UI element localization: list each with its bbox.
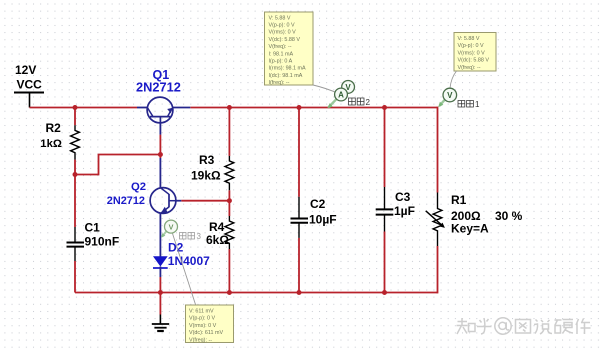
wire R3 top lead [228,108,230,156]
svg-text:Key=A: Key=A [451,222,489,236]
svg-text:R3: R3 [199,153,215,167]
transistor Q1 [137,97,190,135]
wire Q2 base to R3R4 node [181,200,229,202]
leader line right box to probe1 [450,71,457,88]
wire top rail right segment [190,107,437,109]
svg-text:C3: C3 [395,190,411,204]
wire D2 bottom to rail [159,277,161,293]
power source VCC 12V [14,63,44,108]
probe 2 label [349,98,371,107]
svg-text:1N4007: 1N4007 [168,254,210,268]
probe 2 (A+V) on top rail [326,81,355,111]
wire R4 bottom lead [228,249,230,293]
leader line probe3 to bottom box [173,234,196,305]
wire C2 top lead [298,108,300,197]
junction C3 top rail [382,105,387,110]
junction C2 bottom rail [297,290,302,295]
svg-text:19kΩ: 19kΩ [191,169,221,183]
svg-text:VCC: VCC [17,78,43,92]
svg-text:A: A [338,90,344,99]
svg-text:V(freq): --: V(freq): -- [269,44,292,50]
svg-text:I: 98.1 mA: I: 98.1 mA [269,51,294,57]
wire Q1 base down [159,135,161,158]
junction Q1 base feedback node [158,152,163,157]
svg-text:V(p-p): 0 V: V(p-p): 0 V [458,43,484,49]
svg-text:V(dc): 5.88 V: V(dc): 5.88 V [458,58,490,64]
shuo [534,320,552,335]
svg-text:2N2712: 2N2712 [107,195,145,207]
svg-text:6kΩ: 6kΩ [206,233,229,247]
wire C3 bottom lead [384,232,386,293]
wire node to C1 [74,175,76,228]
svg-text:1µF: 1µF [394,204,415,218]
wire feedback Z [75,155,160,175]
svg-text:R1: R1 [451,193,467,207]
capacitor C3 [376,187,394,232]
probe 1 (V) at right corner [436,88,456,109]
probe callout box bottom (V readings) [186,305,234,343]
junction R3 top rail [227,105,232,110]
probe callout box left (V/I readings) [265,12,314,86]
svg-text:C2: C2 [310,197,326,211]
svg-text:C1: C1 [85,220,101,234]
wire top rail left segment [30,107,138,109]
resistor R3 [225,156,234,190]
junction C2 top rail [297,105,302,110]
svg-text:I(p-p): 0 A: I(p-p): 0 A [269,59,293,65]
junction R4 bottom rail [227,290,232,295]
svg-text:2N2712: 2N2712 [136,80,181,95]
svg-text:12V: 12V [15,63,36,77]
resistor R2 [71,125,80,159]
svg-text:V(rms): 0 V: V(rms): 0 V [189,323,217,329]
wire C2 bottom lead [298,238,300,293]
svg-text:V: 5.88 V: V: 5.88 V [458,36,480,42]
wire R2 top lead [74,108,76,126]
junction Q2 base R3 R4 node [227,198,232,203]
svg-text:V: V [447,91,453,100]
wire R1 top lead [437,107,439,193]
probe 3 (V) at Q2 emitter [159,220,177,239]
leader line left box to probe2 [313,85,339,94]
wire C3 top lead [384,108,386,188]
svg-text:Q2: Q2 [131,181,146,193]
capacitor C1 [67,227,85,261]
wire R2 bottom to node [74,160,76,175]
svg-text:1kΩ: 1kΩ [40,138,62,150]
wire R3 bottom R4 top [228,190,230,216]
svg-text:R4: R4 [209,220,225,234]
svg-text:10µF: 10µF [309,212,337,226]
svg-text:V(p-p): 0 V: V(p-p): 0 V [189,316,215,322]
wire R1 bottom lead [437,246,439,293]
svg-text:V(rms): 0 V: V(rms): 0 V [269,30,297,36]
svg-text:1: 1 [475,100,480,109]
junction R2 bottom feedback node [73,172,78,177]
svg-text:30 %: 30 % [495,209,523,223]
ying [555,320,574,334]
transistor Q2 [150,158,181,257]
probe callout box right (V readings) [454,33,496,72]
svg-text:V: 611 mV: V: 611 mV [189,309,214,315]
zhi [457,318,476,334]
resistor R4 [225,216,234,249]
svg-text:3: 3 [197,232,202,241]
wire bottom rail [75,292,438,294]
svg-text:910nF: 910nF [85,235,120,249]
svg-text:R2: R2 [46,121,62,135]
wire ground drop [159,293,161,315]
svg-text:V(freq): --: V(freq): -- [458,65,481,71]
hu [477,318,492,334]
at [495,318,511,334]
svg-text:V(rms): 0 V: V(rms): 0 V [458,50,486,56]
svg-text:V: V [169,222,174,231]
ground [152,315,169,332]
junction R2 top rail [73,105,78,110]
probe 1 label [458,100,480,109]
junction ground bottom rail [158,290,163,295]
svg-text:I(rms): 98.1 mA: I(rms): 98.1 mA [269,66,307,72]
watermark zhihu [457,318,591,334]
tu [516,320,531,334]
diode D2 [153,256,168,277]
svg-text:V(freq): --: V(freq): -- [189,337,212,343]
potentiometer R1 [426,193,442,247]
junction C3 bottom rail [382,290,387,295]
svg-text:V(dc): 5.88 V: V(dc): 5.88 V [269,37,301,43]
svg-text:V(dc): 611 mV: V(dc): 611 mV [189,330,223,336]
svg-text:2: 2 [366,98,371,107]
capacitor C2 [291,197,309,238]
svg-text:V(p-p): 0 V: V(p-p): 0 V [269,23,295,29]
jian [576,319,591,335]
probe 3 label [180,232,202,241]
svg-text:I(freq): --: I(freq): -- [269,80,290,86]
wire C1 to bottom rail [74,261,76,293]
svg-text:V: 5.88 V: V: 5.88 V [269,15,291,21]
svg-text:I(dc): 98.1 mA: I(dc): 98.1 mA [269,73,303,79]
